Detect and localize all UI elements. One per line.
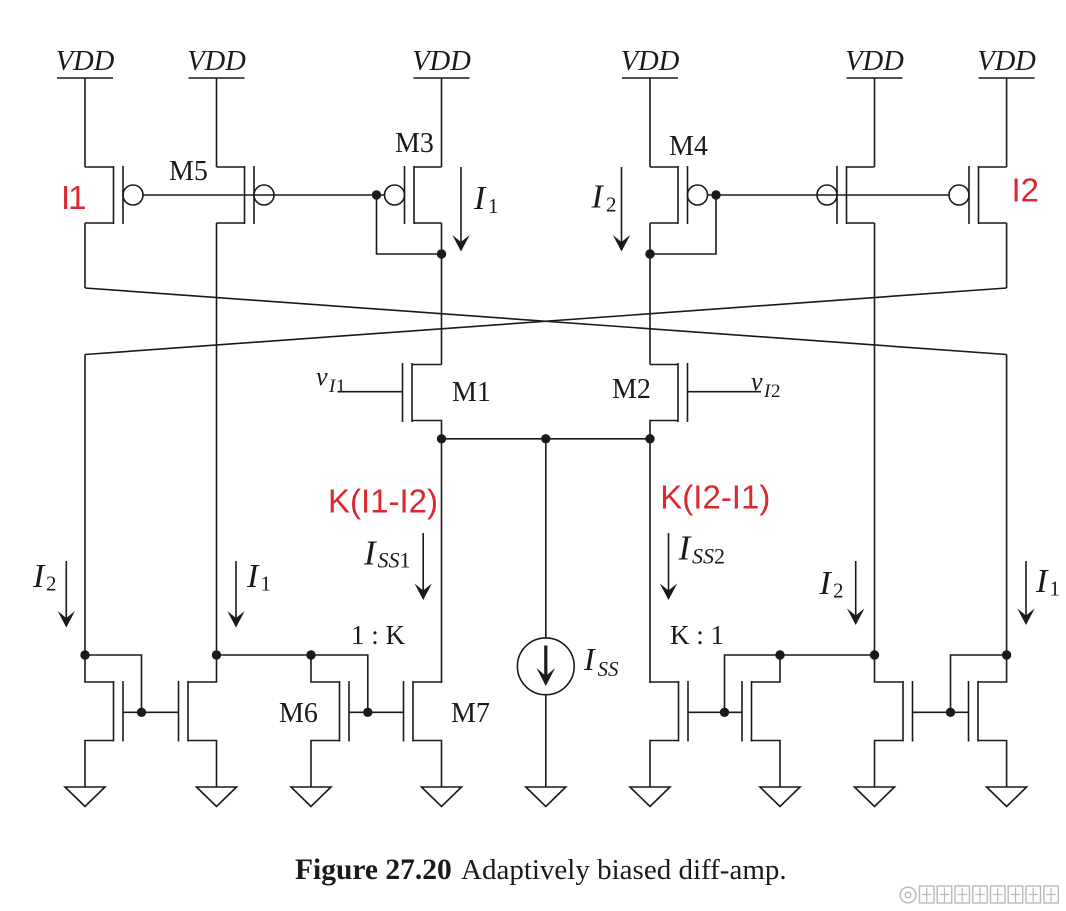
wire diff-pair common source rail xyxy=(442,438,651,440)
svg-text:SS: SS xyxy=(598,657,620,681)
svg-text:I1: I1 xyxy=(61,179,85,216)
svg-text:1: 1 xyxy=(488,194,499,218)
label M1 xyxy=(452,377,491,408)
svg-text:VDD: VDD xyxy=(187,46,246,77)
label I1 (bottom left-mid) xyxy=(246,558,271,596)
svg-text:M7: M7 xyxy=(451,698,490,729)
svg-text:M1: M1 xyxy=(452,377,491,408)
svg-text:1: 1 xyxy=(1050,577,1061,601)
transistor M6 NMOS (diode) xyxy=(311,655,349,787)
transistor I2 PMOS (rightmost) xyxy=(949,166,1007,224)
svg-text:Figure 27.20: Figure 27.20 xyxy=(295,854,452,886)
arrow I2 current (bottom right-mid) xyxy=(847,561,864,625)
caption figure number xyxy=(295,854,452,886)
node B drain junction xyxy=(212,650,221,659)
label ISS2 xyxy=(678,529,726,569)
wire right gate bus (M4,5th,I2 gates) xyxy=(708,194,950,196)
node R3 drain junction xyxy=(775,650,784,659)
svg-text:I2: I2 xyxy=(1012,172,1040,209)
ground (under ISS) xyxy=(526,787,566,807)
svg-text:K(I1-I2): K(I1-I2) xyxy=(328,483,438,520)
transistor M5 PMOS xyxy=(217,166,275,224)
svg-text:Adaptively biased diff-amp.: Adaptively biased diff-amp. xyxy=(461,854,787,886)
arrow I2 current into M4 xyxy=(613,167,630,252)
transistor NMOS A (bottom-left diode) xyxy=(85,655,123,787)
ground (under B) xyxy=(197,787,237,807)
svg-text:1: 1 xyxy=(400,548,411,573)
wire M3 drain to M1 drain xyxy=(441,223,443,365)
transistor M1 NMOS xyxy=(338,363,442,439)
power VDD5 supply symbol and stub xyxy=(845,46,904,167)
svg-text:I: I xyxy=(473,180,487,217)
transistor M3 PMOS (diode-connected) xyxy=(385,166,442,224)
svg-text:2: 2 xyxy=(606,193,617,217)
ground (under R3) xyxy=(760,787,800,807)
svg-text:I: I xyxy=(32,558,46,595)
label M3 xyxy=(395,128,434,159)
power VDD3 supply symbol and stub xyxy=(412,46,471,167)
wire I1-PMOS drain down xyxy=(84,223,86,288)
arrow I1 current (bottom left-mid) xyxy=(227,561,244,628)
svg-text:I: I xyxy=(819,565,833,602)
wire ISS to ground xyxy=(545,695,547,787)
label M2 xyxy=(612,374,651,405)
label I2 (top, at M4) xyxy=(591,179,617,217)
label M5 xyxy=(169,156,208,187)
label K(I2-I1) (red) xyxy=(660,479,770,516)
label 1 : K xyxy=(351,620,406,650)
node A-B gate junction xyxy=(137,708,146,717)
wire M5 drain column xyxy=(216,223,218,655)
label I2 (bottom right-mid) xyxy=(819,565,844,603)
label K(I1-I2) (red) xyxy=(328,483,438,520)
svg-text:SS: SS xyxy=(378,548,400,573)
node D drain junction xyxy=(1002,650,1011,659)
wire A diode link xyxy=(85,655,142,712)
wire cross-coupling diagonal (I2 drain to bottom-left) xyxy=(85,288,1007,355)
label ISS1 xyxy=(363,533,411,572)
transistor PMOS mirror of M4 (5th) xyxy=(817,166,875,224)
transistor R3 NMOS (diode, K:1) xyxy=(742,655,780,787)
transistor D NMOS (bottom-right diode) xyxy=(969,655,1007,787)
wire bottom-right column xyxy=(1006,355,1008,656)
wire R3 bus and diode link xyxy=(725,655,875,712)
label I1 (red, leftmost PMOS) xyxy=(61,179,85,216)
wire C-D gate wire xyxy=(913,711,969,713)
svg-text:VDD: VDD xyxy=(412,46,471,77)
ground (under M7) xyxy=(422,787,462,807)
transistor C NMOS (bottom-right mirror out) xyxy=(875,655,913,787)
transistor L3 NMOS (mirror out, K:1) xyxy=(650,681,688,787)
ground (under A) xyxy=(65,787,105,807)
label I2 (red, rightmost PMOS) xyxy=(1012,172,1040,209)
svg-text:M4: M4 xyxy=(669,131,708,162)
wire D diode link xyxy=(951,655,1007,712)
arrow I2 current (bottom left) xyxy=(58,561,75,628)
svg-text:VDD: VDD xyxy=(56,46,115,77)
ground (under M6) xyxy=(291,787,331,807)
wire tail down to ISS xyxy=(545,439,547,638)
transistor NMOS B (bottom-left mirror out) xyxy=(179,655,217,787)
svg-text:I: I xyxy=(583,641,596,677)
wire A-B gate wire xyxy=(123,711,179,713)
label I1 (bottom right) xyxy=(1035,563,1060,601)
svg-text:2: 2 xyxy=(771,381,781,402)
svg-text:K(I2-I1): K(I2-I1) xyxy=(660,479,770,516)
label vI1 xyxy=(316,362,346,397)
node M6-M7 gate junction xyxy=(363,708,372,717)
svg-text:M3: M3 xyxy=(395,128,434,159)
watermark xyxy=(900,886,1058,903)
svg-text:1: 1 xyxy=(261,572,272,596)
node M3 gate junction xyxy=(372,190,381,199)
label I1 (top, at M3) xyxy=(473,180,499,218)
ground (under D) xyxy=(987,787,1027,807)
node M1 source junction xyxy=(437,434,446,443)
power VDD4 supply symbol and stub xyxy=(621,46,680,167)
node M2 source junction xyxy=(645,434,654,443)
svg-text:M6: M6 xyxy=(279,698,318,729)
power VDD1 supply symbol and stub xyxy=(56,46,115,167)
label M7 xyxy=(451,698,490,729)
label I2 (bottom left) xyxy=(32,558,57,596)
svg-text:M2: M2 xyxy=(612,374,651,405)
transistor I1 PMOS (leftmost) xyxy=(85,166,143,224)
caption text xyxy=(461,854,787,886)
svg-text:v: v xyxy=(316,362,328,391)
arrow ISS1 current xyxy=(415,533,432,600)
svg-text:VDD: VDD xyxy=(621,46,680,77)
node tail junction xyxy=(541,434,550,443)
wire bottom-left column xyxy=(84,355,86,656)
arrow I1 current (bottom right) xyxy=(1017,561,1034,625)
svg-text:1: 1 xyxy=(336,376,346,397)
svg-text:1 : K: 1 : K xyxy=(351,620,406,650)
svg-text:M5: M5 xyxy=(169,156,208,187)
label K : 1 xyxy=(670,620,724,650)
wire M6 bus and diode link xyxy=(311,655,368,712)
node M4 drain junction xyxy=(645,249,654,258)
power VDD6 supply symbol and stub xyxy=(977,46,1036,167)
wire M6-M7 gate wire xyxy=(349,711,404,713)
current source ISS xyxy=(517,638,574,695)
wire M4 drain to M2 drain xyxy=(649,223,651,365)
arrow ISS2 current xyxy=(660,533,677,600)
ground (under L3) xyxy=(630,787,670,807)
node C drain junction xyxy=(870,650,879,659)
wire M3 gate-drain diode link xyxy=(377,195,442,254)
transistor M7 NMOS xyxy=(404,681,442,787)
wire M4 gate-drain diode link xyxy=(650,195,716,254)
power VDD2 supply symbol and stub xyxy=(187,46,246,167)
transistor M4 PMOS (diode-connected) xyxy=(650,166,708,224)
svg-text:I: I xyxy=(246,558,260,595)
label M4 xyxy=(669,131,708,162)
transistor M2 NMOS xyxy=(650,363,761,439)
node M6 drain junction xyxy=(306,650,315,659)
svg-text:2: 2 xyxy=(833,579,844,603)
svg-text:I: I xyxy=(591,179,605,216)
ground (under C) xyxy=(855,787,895,807)
svg-text:2: 2 xyxy=(46,572,57,596)
label vI2 xyxy=(751,367,781,402)
wire 5th-PMOS drain column xyxy=(874,223,876,655)
wire cross-coupling diagonal (I1 drain to bottom-right) xyxy=(85,288,1007,355)
wire M7 drain column xyxy=(441,439,443,682)
wire I2-PMOS drain down xyxy=(1006,223,1008,288)
node L3-R3 gate junction xyxy=(720,708,729,717)
node M4 gate junction xyxy=(711,190,720,199)
node C-D gate junction xyxy=(946,708,955,717)
svg-text:VDD: VDD xyxy=(977,46,1036,77)
svg-text:2: 2 xyxy=(714,544,725,569)
label M6 xyxy=(279,698,318,729)
wire L3-R3 gate wire xyxy=(688,711,742,713)
label ISS xyxy=(583,641,619,681)
arrow I1 current into M3 xyxy=(452,167,469,252)
svg-text:I: I xyxy=(1035,563,1049,600)
svg-text:v: v xyxy=(751,367,763,396)
svg-text:VDD: VDD xyxy=(845,46,904,77)
node M3 drain junction xyxy=(437,249,446,258)
node A drain junction xyxy=(80,650,89,659)
wire left gate bus (I1,M5,M3 gates) xyxy=(143,194,385,196)
svg-text:K : 1: K : 1 xyxy=(670,620,724,650)
wire bottom-left bus to M6 xyxy=(217,654,312,656)
wire L3 drain column xyxy=(649,439,651,682)
svg-text:SS: SS xyxy=(692,544,714,569)
